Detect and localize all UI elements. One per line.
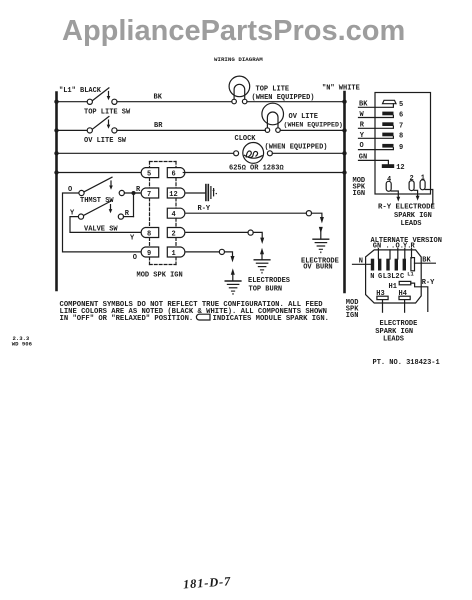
- svg-text:625Ω OR 1283Ω: 625Ω OR 1283Ω: [229, 165, 284, 173]
- svg-text:(WHEN EQUIPPED): (WHEN EQUIPPED): [284, 122, 343, 129]
- svg-text:6: 6: [172, 170, 176, 178]
- svg-text:2: 2: [172, 230, 176, 238]
- switch TOP LITE SW: [84, 88, 131, 116]
- wire R lead: [359, 122, 394, 130]
- node labels GN O Y R above octagon: [373, 243, 416, 251]
- svg-text:BR: BR: [154, 122, 163, 130]
- svg-text:SPARK IGN: SPARK IGN: [394, 212, 432, 220]
- wire line3 bus to clock: [57, 152, 234, 154]
- svg-text:N: N: [370, 273, 374, 281]
- wire pin12 to spark electrode: [186, 192, 205, 194]
- svg-text:(WHEN EQUIPPED): (WHEN EQUIPPED): [265, 143, 328, 151]
- svg-text:(WHEN EQUIPPED): (WHEN EQUIPPED): [252, 94, 315, 102]
- module pin 1: [167, 247, 185, 258]
- node terminal circle pin4 lead: [306, 211, 311, 216]
- wire valve-sw left leg down to pin8 line: [70, 217, 141, 233]
- svg-text:181-D-7: 181-D-7: [183, 574, 232, 591]
- svg-text:PT. NO. 318423-1: PT. NO. 318423-1: [373, 359, 440, 367]
- wire BK lead: [359, 100, 394, 108]
- svg-text:O: O: [133, 254, 137, 262]
- terminal L1 open bar: [411, 258, 415, 271]
- wire leads into octagon top: [378, 249, 411, 260]
- svg-text:INDICATES MODULE SPARK IGN.: INDICATES MODULE SPARK IGN.: [213, 315, 329, 323]
- terminal 2 capsule: [409, 175, 414, 190]
- svg-text:R-Y ELECTRODE: R-Y ELECTRODE: [378, 204, 436, 212]
- switch VALVE SW: [70, 201, 124, 234]
- svg-text:MOD SPK IGN: MOD SPK IGN: [137, 272, 183, 280]
- wire W lead: [359, 111, 394, 119]
- svg-text:7: 7: [147, 191, 151, 199]
- terminal 5: [383, 100, 404, 109]
- label MOD SPK IGN alternate: [346, 299, 359, 320]
- svg-text:5: 5: [147, 170, 151, 178]
- wire lead from terminal 2: [414, 190, 419, 200]
- wire pin1 elbow down: [225, 252, 233, 257]
- wire line3 clock to right bus: [272, 152, 344, 154]
- svg-text:"N" WHITE: "N" WHITE: [322, 85, 360, 93]
- wire lead from terminal 4: [391, 191, 400, 202]
- wire pin7 junction stub: [135, 192, 140, 194]
- wire H3 lead down: [382, 300, 384, 313]
- svg-text:BK: BK: [154, 93, 163, 101]
- svg-text:C: C: [400, 273, 404, 281]
- svg-text:THMST SW: THMST SW: [80, 197, 114, 205]
- svg-text:TOP LITE SW: TOP LITE SW: [84, 108, 131, 116]
- wire O lead: [359, 142, 394, 150]
- svg-text:Y: Y: [130, 234, 135, 242]
- svg-text:IGN: IGN: [353, 190, 366, 198]
- svg-text:G: G: [378, 273, 382, 281]
- electrode gap arrows OV burn: [319, 217, 324, 239]
- wire valve-sw right to vertical: [124, 216, 134, 218]
- wire line1 sw to lamp, BK label: [117, 101, 232, 103]
- node junction dots on right bus: [342, 100, 346, 175]
- wire left bus L1: [55, 93, 58, 291]
- svg-text:12: 12: [169, 191, 177, 199]
- wire H1 to R-Y lead: [411, 283, 428, 311]
- module pin 6: [167, 168, 185, 179]
- wire N lead left: [353, 258, 371, 266]
- svg-text:CLOCK: CLOCK: [235, 135, 257, 143]
- wire pin4 elbow down: [312, 213, 322, 217]
- terminal 12: [382, 164, 405, 172]
- switch THMST SW: [68, 177, 124, 205]
- connector octagon alternate version: [366, 250, 422, 303]
- wire thmst-sw left leg down to pin9 line: [63, 193, 141, 252]
- wire GN lead: [359, 153, 389, 164]
- lamp TOP LITE: [229, 76, 314, 104]
- terminal bars N G L3 L2 C: [371, 259, 406, 271]
- svg-text:IGN: IGN: [346, 312, 359, 320]
- svg-text:9: 9: [399, 144, 403, 152]
- lamp OV LITE: [262, 103, 343, 132]
- terminal H3: [376, 290, 388, 299]
- wire lead from terminal 1: [425, 190, 433, 205]
- svg-text:2: 2: [410, 175, 414, 183]
- module pin 5: [141, 168, 159, 179]
- svg-text:IN "OFF" OR "RELAXED" POSITION: IN "OFF" OR "RELAXED" POSITION.: [60, 315, 194, 323]
- module pin 7: [141, 188, 159, 199]
- module pin 12: [167, 188, 185, 199]
- svg-text:LEADS: LEADS: [383, 335, 404, 343]
- ground electrode OV burn: [313, 239, 329, 252]
- wire thmst-sw right to node R: [124, 192, 139, 194]
- wire line1 lamp to right bus: [247, 101, 344, 103]
- wire pin2 elbow down: [253, 232, 262, 238]
- terminal 7: [382, 122, 403, 130]
- svg-text:WIRING DIAGRAM: WIRING DIAGRAM: [214, 56, 263, 63]
- wire H4 lead down: [404, 300, 406, 313]
- terminal H4: [399, 290, 411, 299]
- wire line2 sw to lamp, BR label: [117, 129, 265, 131]
- terminal H1: [389, 281, 411, 291]
- module symbol key bullet: [196, 314, 210, 320]
- terminal 6: [382, 112, 403, 120]
- module pin 9: [141, 247, 159, 258]
- switch OV LITE SW: [84, 117, 127, 145]
- svg-text:9: 9: [147, 250, 151, 258]
- svg-text:H1: H1: [389, 283, 397, 291]
- module pin 2: [167, 228, 185, 239]
- terminal 9: [382, 144, 403, 152]
- wire junction down to valve-sw: [133, 193, 135, 217]
- terminal 1 capsule: [420, 175, 425, 190]
- svg-text:R-Y: R-Y: [198, 205, 211, 213]
- svg-text:AppliancePartsPros.com: AppliancePartsPros.com: [62, 15, 405, 47]
- svg-text:TOP LITE: TOP LITE: [256, 86, 290, 94]
- label MOD SPK IGN left of box: [353, 177, 366, 198]
- wire pin4 to terminal: [186, 212, 306, 214]
- node R junction: [132, 191, 136, 195]
- label 2.3.3 WD906: [12, 335, 33, 348]
- svg-text:ELECTRODES: ELECTRODES: [248, 277, 290, 285]
- wire line1 bus to top-lite-sw: [57, 101, 87, 103]
- wire right bus N: [343, 92, 346, 292]
- module MOD SPK IGN dashed outline: [150, 162, 177, 265]
- svg-text:OV LITE SW: OV LITE SW: [84, 137, 127, 145]
- svg-text:6: 6: [399, 112, 403, 120]
- svg-text:WD 906: WD 906: [12, 341, 33, 348]
- label N G L3 L2 C L1: [370, 271, 413, 280]
- wire Y lead: [359, 132, 394, 140]
- wire line4 module pin6 to right bus: [183, 172, 344, 174]
- svg-text:8: 8: [147, 230, 151, 238]
- svg-text:OV BURN: OV BURN: [303, 264, 332, 272]
- svg-text:H3: H3: [376, 290, 384, 298]
- svg-text:ELECTRODE: ELECTRODE: [380, 320, 418, 328]
- terminal 4 capsule: [386, 176, 391, 192]
- module pin 4: [167, 208, 185, 219]
- wire line4 bus to module pin5: [57, 172, 141, 174]
- svg-text:L3: L3: [383, 273, 391, 281]
- svg-text:5: 5: [399, 101, 403, 109]
- connector box MOD SPK IGN harness: [375, 93, 431, 195]
- svg-text:8: 8: [399, 133, 403, 141]
- electrode gap arrows pin1: [231, 256, 235, 280]
- svg-text:7: 7: [399, 122, 403, 130]
- electrode spark gap symbol at pin12: [206, 185, 217, 201]
- node terminal circle pin1 lead: [219, 249, 224, 254]
- svg-text:LEADS: LEADS: [401, 220, 422, 228]
- module pin 8: [141, 228, 159, 239]
- terminal 8: [382, 133, 403, 141]
- svg-text:OV LITE: OV LITE: [289, 113, 318, 121]
- label ELECTRODE SPARK IGN LEADS alternate: [375, 320, 417, 344]
- wire pin1 to terminal: [186, 251, 219, 253]
- ground electrode pin1: [225, 281, 241, 294]
- wire line2 bus to ov-lite-sw: [57, 129, 87, 131]
- svg-text:H4: H4: [399, 290, 407, 298]
- node junction dots on left bus: [54, 100, 58, 175]
- wire line2 lamp to right bus: [280, 129, 344, 131]
- ground electrodes top burn: [254, 260, 270, 273]
- svg-text:"L1" BLACK: "L1" BLACK: [59, 87, 102, 95]
- svg-text:L2: L2: [391, 273, 399, 281]
- clock CLOCK motor: [229, 135, 328, 173]
- node terminal circle pin2 lead: [248, 230, 253, 235]
- wire pin2 to terminal: [186, 231, 248, 233]
- label R-Y ELECTRODE SPARK IGN LEADS: [378, 204, 436, 229]
- svg-text:TOP BURN: TOP BURN: [249, 286, 283, 294]
- svg-text:12: 12: [396, 164, 404, 172]
- wire BK lead right: [415, 256, 436, 264]
- svg-text:L1: L1: [407, 271, 413, 277]
- svg-text:4: 4: [172, 211, 176, 219]
- electrode gap arrows top burn: [260, 238, 264, 260]
- svg-text:1: 1: [172, 250, 176, 258]
- svg-text:R-Y: R-Y: [422, 279, 435, 287]
